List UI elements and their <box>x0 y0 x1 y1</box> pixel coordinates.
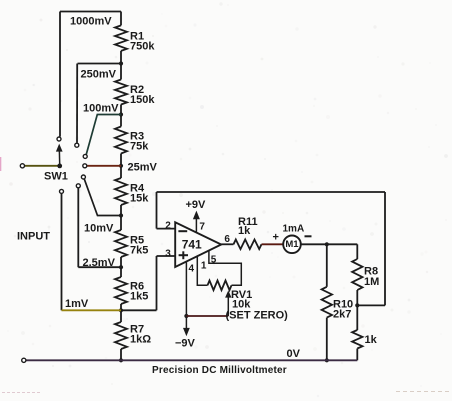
svg-text:7: 7 <box>199 222 205 233</box>
svg-text:75k: 75k <box>130 141 149 153</box>
svg-text:1k: 1k <box>365 334 378 346</box>
svg-text:10mV: 10mV <box>84 223 114 235</box>
svg-text:4: 4 <box>189 264 195 275</box>
svg-text:2k7: 2k7 <box>333 309 351 321</box>
svg-text:5: 5 <box>211 254 217 265</box>
svg-text:1k5: 1k5 <box>130 291 148 303</box>
svg-text:+: + <box>273 232 279 244</box>
svg-text:100mV: 100mV <box>83 103 119 115</box>
svg-text:2: 2 <box>165 220 171 231</box>
svg-text:0V: 0V <box>287 348 301 360</box>
svg-text:6: 6 <box>224 234 230 245</box>
svg-text:1mV: 1mV <box>65 298 89 310</box>
svg-text:INPUT: INPUT <box>17 231 50 243</box>
svg-text:1k: 1k <box>238 225 251 237</box>
svg-text:1000mV: 1000mV <box>70 15 112 27</box>
svg-text:15k: 15k <box>130 193 149 205</box>
svg-text:7k5: 7k5 <box>130 245 148 257</box>
svg-text:150k: 150k <box>130 94 155 106</box>
svg-text:2.5mV: 2.5mV <box>83 257 116 269</box>
svg-text:250mV: 250mV <box>81 69 117 81</box>
svg-text:750k: 750k <box>130 41 155 53</box>
svg-text:1M: 1M <box>364 276 379 288</box>
svg-text:M1: M1 <box>285 239 299 250</box>
svg-text:SW1: SW1 <box>44 171 68 183</box>
svg-text:741: 741 <box>182 238 202 252</box>
svg-text:25mV: 25mV <box>128 162 158 174</box>
svg-text:1: 1 <box>201 261 207 272</box>
svg-text:3: 3 <box>165 248 171 259</box>
svg-text:−9V: −9V <box>175 338 196 350</box>
svg-text:1mA: 1mA <box>283 224 305 235</box>
svg-text:(SET ZERO): (SET ZERO) <box>226 310 289 322</box>
svg-text:1kΩ: 1kΩ <box>130 334 151 346</box>
svg-text:+9V: +9V <box>186 199 207 211</box>
svg-text:Precision DC Millivoltmeter: Precision DC Millivoltmeter <box>152 365 287 376</box>
